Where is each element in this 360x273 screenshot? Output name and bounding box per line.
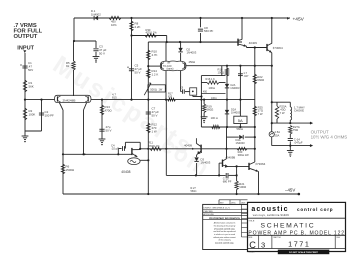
resistor R21 xyxy=(235,174,246,194)
wire Q7 collector xyxy=(271,17,273,44)
svg-text:40409: 40409 xyxy=(249,41,257,45)
wire ladder top drop xyxy=(221,66,223,76)
ground (R19) xyxy=(201,116,218,123)
svg-text:500Ω: 500Ω xyxy=(150,87,157,91)
svg-text:10½ W/G 4 OHMS: 10½ W/G 4 OHMS xyxy=(311,135,348,140)
trimpot R15 500 xyxy=(144,82,166,95)
svg-text:1N4003: 1N4003 xyxy=(201,161,211,165)
svg-text:56K: 56K xyxy=(29,84,34,88)
svg-text:1771: 1771 xyxy=(288,239,310,248)
resistor R9 450 xyxy=(109,16,121,27)
svg-text:2N4248B: 2N4248B xyxy=(63,98,76,102)
svg-text:5A: 5A xyxy=(238,118,243,123)
wire R25A top row xyxy=(272,101,291,103)
resistor R11 xyxy=(148,141,162,151)
wire Q10 collector xyxy=(254,127,256,162)
svg-text:1N4003: 1N4003 xyxy=(236,141,246,145)
svg-text:100 PF: 100 PF xyxy=(45,113,55,117)
svg-text:All information contained in: All information contained in xyxy=(214,222,236,225)
wire lattice bottom row xyxy=(201,125,256,128)
wire output rail upper xyxy=(271,53,273,125)
capacitor C7 xyxy=(146,107,159,118)
svg-text:PROPRIETARY INFORMATION: PROPRIETARY INFORMATION xyxy=(209,217,240,220)
svg-text:680 PF: 680 PF xyxy=(223,179,232,183)
svg-text:1500Ω: 1500Ω xyxy=(66,168,75,172)
capacitor C4 xyxy=(111,143,124,154)
wire D4 rung column xyxy=(226,127,228,149)
label R7 815 xyxy=(112,93,117,100)
resistor R25B xyxy=(253,106,263,117)
svg-text:(trans): (trans) xyxy=(167,68,174,71)
resistor R22 xyxy=(253,74,264,84)
svg-text:470Ω 1%: 470Ω 1% xyxy=(148,144,160,148)
svg-text:560 PF: 560 PF xyxy=(204,29,214,33)
svg-text:in whole or in part or used: in whole or in part or used xyxy=(214,233,235,236)
capacitor C9 xyxy=(180,86,190,93)
wire C5 vertical xyxy=(131,36,133,100)
svg-text:450Ω: 450Ω xyxy=(189,60,196,64)
ground (input) xyxy=(22,131,29,143)
wire feedback xyxy=(91,99,255,101)
wire 4.7K column xyxy=(147,42,149,100)
diode D2 xyxy=(178,42,196,61)
transistor Q10 2N3064 (bottom output) xyxy=(249,162,266,172)
resistor R19 560 xyxy=(202,99,213,117)
diode D3 xyxy=(194,155,210,176)
wire Q10 emitter xyxy=(258,172,260,195)
svg-text:OUTPUT: OUTPUT xyxy=(14,34,38,40)
wire lower base row xyxy=(62,153,132,155)
svg-text:7 W: 7 W xyxy=(280,111,285,115)
fuse F1 2.5A xyxy=(269,123,280,146)
svg-text:1W: 1W xyxy=(159,88,163,91)
svg-text:and shall not be reproduced: and shall not be reproduced xyxy=(213,230,235,233)
svg-text:–45V: –45V xyxy=(285,188,295,193)
wire driver row xyxy=(139,148,255,150)
svg-text:91: 91 xyxy=(66,64,70,68)
svg-text:acoustic control corp.: acoustic control corp. xyxy=(215,242,234,245)
wire R30 horizontal xyxy=(130,34,166,36)
svg-text:470Ω: 470Ω xyxy=(105,108,113,112)
svg-text:without prior written consent: without prior written consent xyxy=(213,236,236,239)
wire zener column xyxy=(239,66,241,117)
svg-text:815: 815 xyxy=(168,96,173,99)
svg-text:450: 450 xyxy=(203,91,208,94)
diode D2A xyxy=(225,83,240,90)
wire C4 loop xyxy=(125,142,140,149)
wire D2A column xyxy=(226,66,228,127)
wire Q1 emitter right xyxy=(84,103,87,155)
box 5A xyxy=(234,116,247,131)
resistor R12 xyxy=(147,123,158,134)
svg-text:1N4003: 1N4003 xyxy=(231,111,241,115)
resistor R6 xyxy=(61,154,75,194)
component box (bias) xyxy=(190,88,202,97)
svg-text:2.2K: 2.2K xyxy=(135,25,141,29)
wire Q9 collector xyxy=(225,148,227,159)
svg-text:+45V: +45V xyxy=(293,16,305,22)
wire U1 left emitter xyxy=(165,71,167,100)
ladder rung xyxy=(201,86,225,100)
wire C8 column xyxy=(199,17,201,42)
svg-text:40408: 40408 xyxy=(121,170,130,174)
capacitor C5 xyxy=(127,64,142,75)
svg-text:CHECKED: CHECKED xyxy=(204,211,214,213)
svg-text:acoustic: acoustic xyxy=(251,206,288,213)
-45V terminal xyxy=(285,188,300,196)
output terminal upper xyxy=(310,122,314,125)
ground (C6) xyxy=(99,139,106,146)
inductor L1 choke xyxy=(290,102,305,123)
resistor R27 xyxy=(289,125,300,134)
label R24 560 xyxy=(191,187,197,193)
svg-text:this drawing is the property: this drawing is the property xyxy=(214,224,236,227)
output label xyxy=(311,129,348,139)
svg-text:560Ω: 560Ω xyxy=(191,190,197,193)
wire U1 right emitter xyxy=(180,71,182,92)
capacitor C9A xyxy=(238,71,249,78)
wire Q5 emitter row xyxy=(247,46,267,48)
wire Q5 base xyxy=(167,41,238,43)
diode D1 xyxy=(91,9,101,20)
svg-text:.047: .047 xyxy=(243,74,249,78)
svg-text:of acoustic control corp.: of acoustic control corp. xyxy=(214,227,235,230)
ground (zobel) xyxy=(287,146,294,158)
resistor R2 xyxy=(23,100,35,131)
resistor R18 xyxy=(218,68,229,77)
svg-text:25A: 25A xyxy=(275,133,280,137)
wire output return line xyxy=(272,145,312,147)
capacitor C14 xyxy=(288,134,303,146)
resistor R5 xyxy=(66,61,75,70)
svg-text:815: 815 xyxy=(112,96,117,100)
title block xyxy=(203,200,346,254)
resistor R8 xyxy=(130,21,141,31)
transistor Q8 40409 xyxy=(184,138,201,154)
svg-text:van nuys, california 91409: van nuys, california 91409 xyxy=(253,213,289,217)
capacitor C1 xyxy=(20,61,33,72)
capacitor C3 xyxy=(93,41,106,57)
diode D2B xyxy=(225,108,241,115)
svg-text:1N4003: 1N4003 xyxy=(187,51,197,55)
resistor R7b xyxy=(168,93,176,102)
svg-text:100Ω: 100Ω xyxy=(211,97,217,100)
svg-text:.02 µF: .02 µF xyxy=(111,147,119,151)
wire U1 left collector xyxy=(165,42,167,61)
resistor R14 xyxy=(147,69,159,78)
wire emitter drop column xyxy=(254,48,256,128)
svg-text:100Ω: 100Ω xyxy=(209,86,215,90)
svg-text:of the company: of the company xyxy=(218,239,230,242)
output terminal lower xyxy=(310,144,314,147)
wire Q9 base drop xyxy=(218,163,220,175)
input label with arrow xyxy=(17,45,34,53)
resistor R13 xyxy=(100,105,112,115)
svg-text:100 Ω: 100 Ω xyxy=(211,116,218,120)
svg-text:CHOKE: CHOKE xyxy=(294,109,304,113)
capacitor C8 xyxy=(198,26,214,33)
svg-text:SCALE: SCALE xyxy=(248,251,255,254)
wire Q1 emitter left xyxy=(59,103,63,155)
svg-text:SCHEMATIC: SCHEMATIC xyxy=(261,222,316,229)
wire tail vertical xyxy=(73,18,76,96)
wire U1 right base row xyxy=(186,60,273,67)
diode D4 rung xyxy=(227,135,255,145)
wire C7 column xyxy=(147,99,149,195)
transistor Q5 40409 xyxy=(238,39,257,47)
svg-text:♯73064: ♯73064 xyxy=(256,162,266,166)
transistor Q9 40409 xyxy=(219,156,235,168)
svg-text:R16 1 K: R16 1 K xyxy=(206,77,216,81)
dual transistor U1 TO-100 (envelope) xyxy=(160,61,186,71)
wire C10 row xyxy=(196,166,237,176)
resistor R30 xyxy=(145,28,157,37)
transistor Q7 2N3064 (top output) xyxy=(267,43,283,53)
svg-text:75Ω: 75Ω xyxy=(293,128,298,132)
wire R30 down xyxy=(166,36,168,43)
wire input vertical xyxy=(24,53,26,100)
svg-text:1N4003: 1N4003 xyxy=(230,86,240,90)
wire mid vertical xyxy=(166,100,197,177)
svg-text:300Ω 1W: 300Ω 1W xyxy=(238,153,249,157)
svg-text:DO NOT SCALE THIS PRINT: DO NOT SCALE THIS PRINT xyxy=(289,251,318,254)
+45V terminal xyxy=(287,16,305,22)
resistor R20 rung xyxy=(237,147,249,157)
svg-text:50 V: 50 V xyxy=(152,113,158,117)
wire base Q1a xyxy=(24,99,55,101)
svg-text:10%: 10% xyxy=(111,23,117,27)
svg-text:control corp: control corp xyxy=(297,207,333,212)
svg-text:40409B: 40409B xyxy=(226,156,236,160)
resistor R25A .43 xyxy=(275,102,286,123)
svg-text:50 V: 50 V xyxy=(135,70,141,74)
wire top rail xyxy=(74,17,290,19)
svg-text:100Ω: 100Ω xyxy=(218,71,225,75)
watermark (light gray diagonal) xyxy=(44,50,220,181)
svg-text:560Ω: 560Ω xyxy=(207,108,214,112)
note: .7 VRMS FOR FULL OUTPUT xyxy=(14,23,43,40)
svg-text:50 V: 50 V xyxy=(106,128,112,132)
svg-text:PART NO: PART NO xyxy=(273,236,281,239)
svg-text:3: 3 xyxy=(261,240,265,249)
svg-text:.047µF: .047µF xyxy=(294,141,303,145)
wire R8 vertical xyxy=(130,17,132,36)
svg-text:50 V: 50 V xyxy=(99,51,105,55)
svg-text:100K: 100K xyxy=(29,112,36,116)
wire bias row xyxy=(148,41,242,43)
wire Q9 emitter row xyxy=(227,165,249,167)
svg-text:560Ω: 560Ω xyxy=(257,78,264,82)
resistor R1 xyxy=(23,80,33,92)
svg-text:40409: 40409 xyxy=(184,144,192,148)
svg-text:TITLE: TITLE xyxy=(248,221,254,223)
wire output line xyxy=(272,122,312,124)
svg-text:DESC: DESC xyxy=(231,202,236,204)
svg-text:1 W: 1 W xyxy=(152,129,157,133)
capacitor C2 xyxy=(39,99,54,132)
svg-text:50V: 50V xyxy=(28,68,33,72)
wire U1 left base xyxy=(147,65,160,67)
capacitor C6 xyxy=(99,125,111,132)
resistor R16 1K xyxy=(201,77,225,84)
transistor Q4 40408 xyxy=(121,148,140,174)
svg-text:470Ω 1%: 470Ω 1% xyxy=(146,31,158,35)
svg-text:APPROVED: APPROVED xyxy=(204,213,215,216)
svg-text:100Ω: 100Ω xyxy=(239,185,246,189)
wire ladder top edge xyxy=(201,75,225,77)
svg-text:DRWN T. WEICHSELB 12-71: DRWN T. WEICHSELB 12-71 xyxy=(204,208,231,210)
svg-text:1.2 K: 1.2 K xyxy=(152,72,159,76)
svg-text:7 W: 7 W xyxy=(258,112,263,116)
svg-text:OUTPUT: OUTPUT xyxy=(311,129,329,134)
svg-text:♯73064: ♯73064 xyxy=(273,46,283,50)
svg-text:4.7K: 4.7K xyxy=(152,53,158,57)
wire R2/C2 bottom xyxy=(25,130,42,132)
resistor R10 xyxy=(147,50,158,61)
dual transistor Q1 2N4248 (envelope) xyxy=(55,95,92,102)
wire R13 column xyxy=(101,100,103,139)
wire C3 branch xyxy=(73,40,96,42)
wire ladder left edge xyxy=(200,76,202,127)
svg-text:1N4002: 1N4002 xyxy=(91,12,101,16)
wire Q5 collector xyxy=(241,17,243,40)
thermistor TM1 xyxy=(128,158,150,165)
wire bottom rail -45V xyxy=(63,193,299,195)
ground (C3) xyxy=(93,57,100,64)
capacitor C10 xyxy=(223,173,232,183)
